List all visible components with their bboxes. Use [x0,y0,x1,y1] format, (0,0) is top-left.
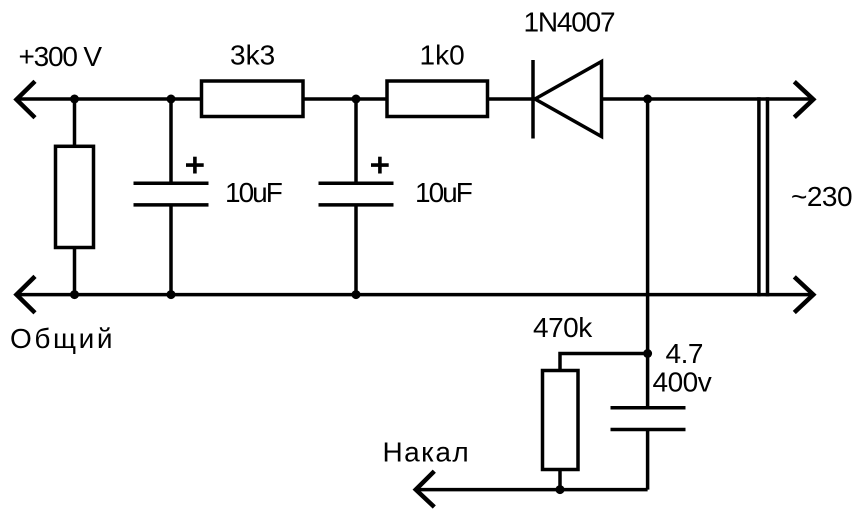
svg-text:4.7: 4.7 [666,338,703,369]
svg-text:Общий: Общий [10,323,115,354]
resistor R2 3k3 [202,81,304,117]
node bottom rail / R1 [70,290,79,299]
node top rail / diode output [643,95,652,104]
svg-text:Накал: Накал [383,436,471,467]
node bias tap [643,349,652,358]
svg-text:10uF: 10uF [415,177,472,208]
node bottom wire / R4 [556,485,565,494]
wire left resistor bottom lead [73,248,77,295]
wire C3 bottom lead [646,430,650,490]
wire C1 top lead [169,99,173,183]
arrow bottom-left (common terminal) [17,276,36,312]
wire filament bottom [415,488,647,492]
node top rail / C2 [352,95,361,104]
svg-text:400v: 400v [653,367,712,398]
wire bias tap to R4 top [560,354,648,371]
C2 polarity plus sign [371,157,389,174]
C1 polarity plus sign [186,157,204,174]
wire bottom rail [16,293,814,297]
capacitor C3 4.7uF 400v [611,408,686,430]
capacitor C2 10uF [319,183,394,205]
wire from diode node down to bias network [646,99,650,408]
svg-text:+300 V: +300 V [19,41,103,72]
arrow bottom-right (to ~230 mains) [794,277,813,313]
resistor R3 1k0 [387,81,488,117]
transformer winding double line [759,97,768,296]
wire C2 top lead [354,99,358,183]
svg-text:470k: 470k [533,312,593,343]
arrow top-right (to ~230 mains) [794,82,813,118]
resistor R1 (bleeder, vertical left) [56,146,94,247]
arrow filament terminal [416,471,435,507]
wire C2 bottom lead [354,205,358,295]
node top rail / R1 [70,95,79,104]
svg-text:1N4007: 1N4007 [524,7,616,38]
svg-text:3k3: 3k3 [230,40,275,71]
wire top rail [16,97,814,101]
wire C1 bottom lead [169,205,173,295]
svg-text:~230: ~230 [791,181,852,212]
capacitor C1 10uF [134,183,209,205]
node top rail / C1 [167,95,176,104]
node bottom rail / C2 [352,290,361,299]
svg-text:1k0: 1k0 [420,40,465,71]
svg-text:10uF: 10uF [225,177,282,208]
resistor R4 470k [543,371,579,470]
diode D1 1N4007 triangle [535,62,602,137]
arrow top-left (+300 V terminal) [17,81,36,117]
diode D1 1N4007 cathode bar [531,60,535,139]
node bottom rail / C1 [167,290,176,299]
wire R4 bottom lead [558,470,562,490]
wire left resistor top lead [73,99,77,146]
